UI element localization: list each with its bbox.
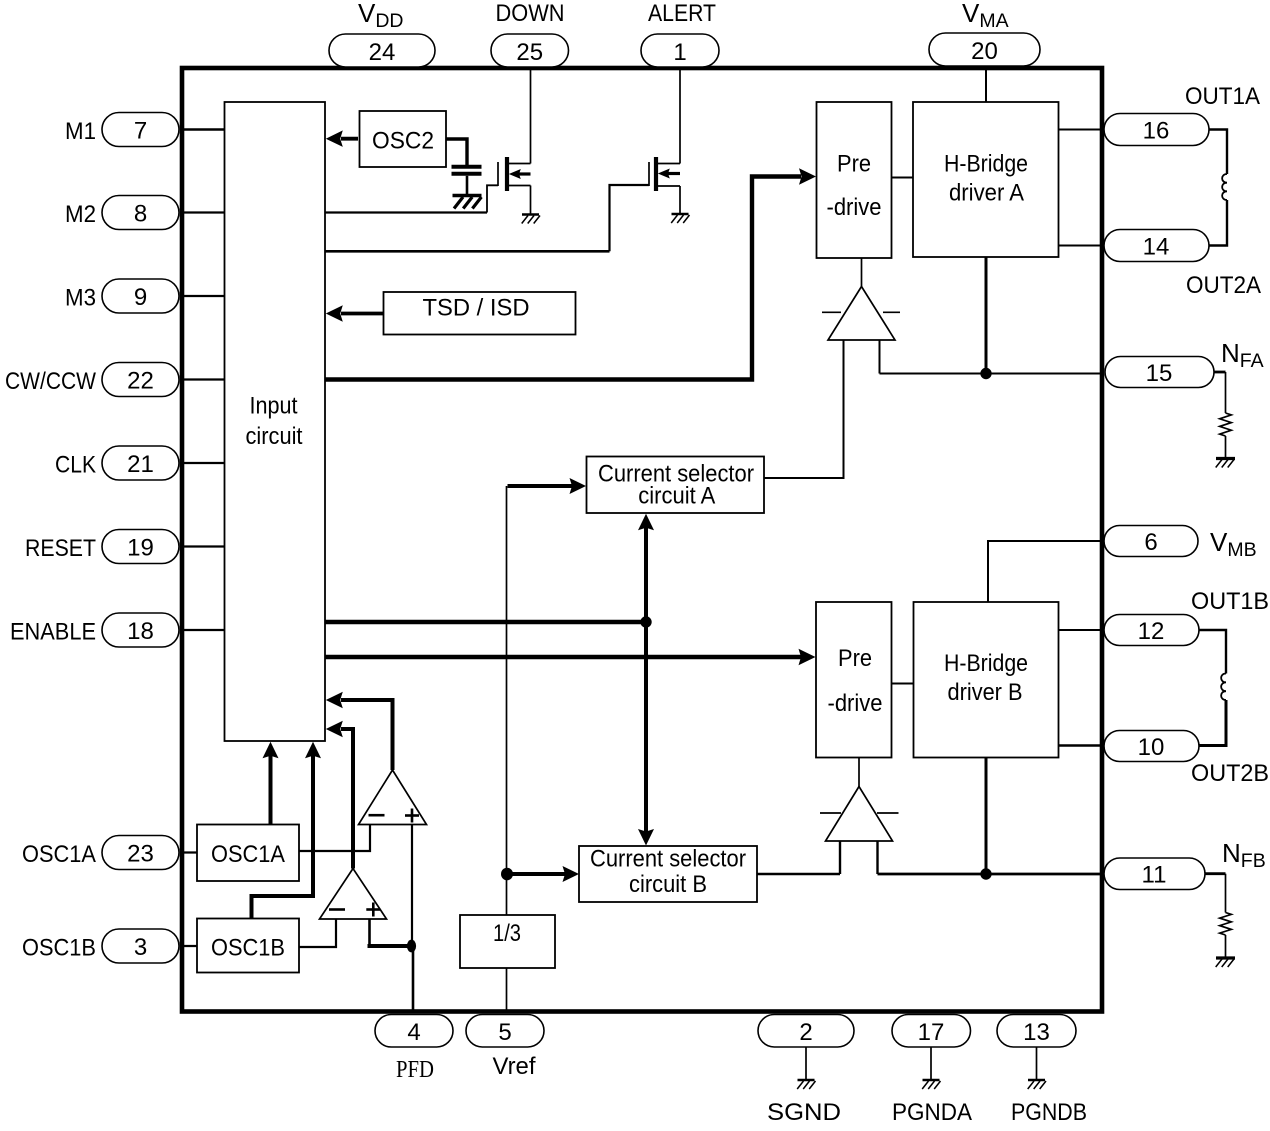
wire Vref riser [506,486,508,915]
svg-text:13: 13 [1023,1019,1050,1046]
wire pin 18 stub [180,629,224,631]
svg-text:Pre: Pre [838,645,872,672]
svg-text:10: 10 [1138,734,1165,761]
pin 6 oval [1104,526,1198,557]
resistor RB (NFB sense) [1225,874,1227,913]
pin 2 (SGND) oval [758,1015,854,1048]
svg-text:OSC1A: OSC1A [211,841,285,868]
wire C1 to ground [466,176,469,194]
block: H-Bridge driver A [913,102,1059,257]
pin 13 (PGNDB) oval [997,1015,1076,1048]
wire pin 3 stub [180,945,197,947]
ground (Q2 source) [672,213,689,215]
block: TSD / ISD [384,292,576,335]
svg-text:5: 5 [498,1019,511,1046]
wire arrow Vref to Current selector B [507,872,566,876]
wire amp B output to Pre-drive B [858,758,860,788]
svg-text:15: 15 [1146,360,1173,387]
wire H-Bridge B bottom to NFB node [985,758,988,875]
comparator U1 (OSC1A) [359,770,427,825]
svg-text:3: 3 [134,934,147,961]
svg-text:OSC1A: OSC1A [22,841,96,868]
node Vref junction [501,868,513,881]
wire arrow comparator U1 output to input circuit [341,700,393,770]
block: 1/3 divider [460,915,555,968]
block: OSC1A [197,825,299,882]
wire amp A noninv input [879,340,881,374]
svg-text:OUT2B: OUT2B [1191,760,1269,787]
pin 3 (OSC1B) oval [102,929,179,963]
wire VMA to H-Bridge A [985,70,987,102]
wire pin 15 to resistor RA [1214,371,1226,374]
wire Q1 source to ground [530,186,532,215]
svg-text:-drive: -drive [827,194,882,221]
node PFD junction [407,940,416,953]
pin 10 oval [1104,731,1199,762]
wire Pre-drive A to H-Bridge A [892,177,914,179]
wire PFD node to comparator inputs [411,825,413,947]
svg-text:14: 14 [1143,234,1170,261]
block: OSC2 [360,111,447,167]
svg-text:circuit: circuit [246,423,303,450]
svg-text:circuit A: circuit A [638,483,715,510]
svg-text:Input: Input [250,393,298,420]
wire H-Bridge B to pin 12 [1059,629,1103,631]
svg-text:12: 12 [1138,618,1165,645]
IC outline box [182,68,1102,1012]
ground (PGNDA) [923,1079,940,1081]
transistor Q1 source stub [507,185,531,187]
wire Current selector B output to amp B [757,873,840,875]
svg-text:H-Bridge: H-Bridge [944,650,1028,677]
wire arrow Vref to Current selector A [508,484,573,488]
pin 22 (CW/CCW) oval [102,363,179,397]
pin 11 oval [1104,858,1205,890]
pin 14 oval [1104,230,1209,262]
wire pin 19 stub [180,545,224,547]
wire pin 7 stub [180,128,224,130]
svg-text:ENABLE: ENABLE [10,619,96,646]
node chain junction [640,616,651,627]
ground (Q1 source) [522,213,539,215]
svg-text:21: 21 [127,451,154,478]
svg-text:OUT1A: OUT1A [1185,83,1260,110]
wire SGND stem [805,1047,807,1080]
ground (RB) [1216,956,1235,959]
transistor Q1 drain stub [507,163,531,165]
pin 20 (VMA) oval [929,33,1040,66]
svg-text:M3: M3 [65,285,96,312]
block: H-Bridge driver B [914,602,1059,758]
op-amp A (current comparator) [828,287,895,341]
ground (C1) [453,194,482,197]
pin 23 (OSC1A) oval [102,836,179,870]
wire OSC2 to capacitor [446,139,467,165]
wire PGNDB stem [1036,1047,1038,1080]
wire OSC1B to U2 inv input [299,919,336,947]
wire Q2 gate [610,185,650,251]
wire CW/CCW bold path to Pre-drive A [325,177,801,380]
svg-text:23: 23 [127,841,154,868]
svg-text:7: 7 [134,118,147,145]
wire H-Bridge B to pin 10 [1059,744,1103,747]
svg-text:20: 20 [971,38,998,65]
wire arrow OSC2 to input circuit [341,137,358,141]
transistor Q1 channel bar [505,157,509,191]
svg-text:CLK: CLK [55,452,96,479]
svg-text:24: 24 [369,39,396,66]
wire pin 23 stub [180,851,197,853]
resistor RA (NFA sense) [1225,372,1227,413]
pin 9 (M3) oval [102,279,179,313]
svg-text:19: 19 [127,535,154,562]
pin 4 (PFD) oval [375,1015,453,1048]
svg-text:RESET: RESET [25,535,96,562]
svg-text:PFD: PFD [396,1057,434,1083]
node NFB junction [980,868,991,879]
wire PGNDA stem [930,1047,932,1080]
svg-text:4: 4 [407,1019,420,1046]
pin 16 oval [1104,114,1209,146]
svg-text:OUT2A: OUT2A [1186,272,1261,299]
transistor Q2 source stub [656,185,680,187]
wire amp A output to Pre-drive A [861,258,863,287]
transistor Q2 body arrow [666,172,680,175]
wire PFD to node [412,946,415,1013]
pin 5 (Vref) oval [466,1015,544,1048]
svg-text:25: 25 [516,39,543,66]
svg-text:M2: M2 [65,201,96,228]
block: Pre-drive A [817,102,892,258]
inductor LB (motor coil B) [1199,630,1226,674]
svg-text:2: 2 [799,1019,812,1046]
svg-text:PGNDB: PGNDB [1011,1099,1087,1126]
svg-text:H-Bridge: H-Bridge [944,151,1028,178]
wire Q1 gate [487,185,498,212]
wire M2 net [325,211,487,213]
svg-text:driver A: driver A [949,180,1024,207]
wire H-Bridge A to pin 14 [1059,245,1103,247]
wire pin 22 stub [180,378,224,380]
pin 19 (RESET) oval [102,530,179,564]
svg-text:Pre: Pre [837,151,871,178]
wire arrow comparator U2 output to input circuit [341,729,353,869]
inductor LA (motor coil A) [1209,130,1227,175]
wire pin 9 stub [180,295,224,297]
svg-text:Current selector: Current selector [590,846,746,873]
wire arrow OSC1A to input circuit [269,755,273,825]
wire pin 8 stub [180,211,224,213]
pin 8 (M2) oval [102,196,179,230]
transistor Q2 channel bar [654,157,658,191]
block: Current selector circuit A [587,457,765,514]
block: Current selector circuit B [579,846,757,902]
wire pin 21 stub [180,462,224,464]
pin 17 (PGNDA) oval [892,1015,971,1048]
svg-text:1/3: 1/3 [493,920,521,947]
pin 15 oval [1105,357,1214,388]
svg-text:22: 22 [127,368,154,395]
pin 18 (ENABLE) oval [102,613,179,647]
svg-text:OSC1B: OSC1B [211,935,285,962]
wire pin 11 to resistor RB [1205,872,1226,875]
wire Q2 source to ground [679,186,681,214]
svg-text:17: 17 [918,1019,945,1046]
wire NFA node to pin 15 [880,373,1103,375]
wire ENABLE bold line 1 [325,620,646,624]
wire arrow OSC1B to input circuit [252,755,314,919]
svg-text:16: 16 [1143,118,1170,145]
transistor Q1 (DOWN) gate bar [497,162,499,186]
op-amp B (current comparator) [826,787,893,842]
wire arrow chain up to Current selector A [644,527,648,622]
pin 1 (ALERT) oval [641,34,719,67]
svg-text:OUT1B: OUT1B [1191,588,1269,615]
svg-text:-drive: -drive [828,690,883,717]
svg-text:CW/CCW: CW/CCW [5,368,96,395]
pin 24 (VDD) oval [329,34,435,67]
ground (PGNDB) [1028,1079,1045,1081]
svg-text:driver B: driver B [948,679,1023,706]
wire amp B noninv input [876,841,878,874]
wire arrow TSD/ISD to input circuit [341,312,384,316]
pin 25 (DOWN) oval [491,34,569,67]
wire input-circuit to Q2 gate [325,250,610,253]
node NFA junction [980,368,991,379]
wire H-Bridge A bottom to NFA node [985,257,988,374]
svg-text:6: 6 [1144,529,1157,556]
block: Input circuit [225,102,326,741]
svg-text:DOWN: DOWN [496,0,565,27]
wire H-Bridge A to pin 16 [1059,129,1103,131]
wire OSC1A to U1 inv input [299,825,370,852]
ground (RA) [1216,457,1235,460]
svg-text:ALERT: ALERT [648,0,716,27]
transistor Q2 drain stub [656,163,680,165]
svg-text:18: 18 [127,618,154,645]
capacitor C1 plates [452,165,482,169]
wire VMB to H-Bridge B [988,541,1102,602]
transistor Q1 body arrow [517,172,531,175]
svg-text:1: 1 [673,39,686,66]
wire DOWN drain [530,70,532,164]
svg-text:TSD / ISD: TSD / ISD [423,295,530,322]
wire NFB node to pin 11 [878,873,1103,876]
block: Pre-drive B [816,602,892,758]
svg-text:OSC1B: OSC1B [22,935,96,962]
svg-text:Vref: Vref [493,1053,536,1080]
wire ENABLE bold line 2 to Pre-drive B [325,655,801,659]
wire arrow chain down to Current selector B [644,622,648,832]
pin 21 (CLK) oval [102,446,179,480]
wire Pre-drive B to H-Bridge B [892,683,914,685]
wire amp B inv input [839,841,841,874]
block: OSC1B [197,919,299,973]
pin 7 (M1) oval [102,113,179,147]
svg-text:8: 8 [134,201,147,228]
svg-text:circuit B: circuit B [629,871,707,898]
ground (SGND) [798,1079,815,1081]
wire amp A inv input from Current selector A [764,340,844,478]
wire ALERT drain [679,70,681,164]
svg-text:PGNDA: PGNDA [892,1099,972,1126]
comparator U2 (OSC1B) [320,869,387,920]
svg-text:9: 9 [134,284,147,311]
svg-text:SGND: SGND [767,1099,841,1126]
svg-text:M1: M1 [65,118,96,145]
transistor Q2 (ALERT) gate bar [648,162,650,186]
pin 12 oval [1104,615,1199,646]
wire 1/3 to pin 5 [506,968,508,1013]
svg-text:OSC2: OSC2 [372,128,434,155]
svg-text:11: 11 [1142,862,1167,889]
wire U2 noninv input to PFD node [368,919,371,944]
